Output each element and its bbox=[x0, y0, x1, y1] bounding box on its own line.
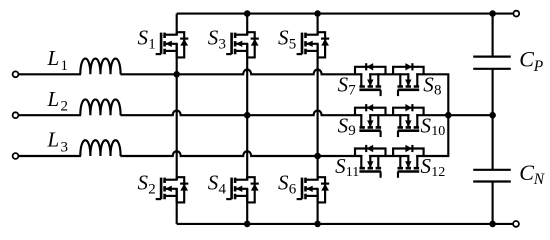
wire phase 2: S9-S10 common bar bbox=[369, 114, 409, 116]
wire phase 3: S11-S12 common bar bbox=[369, 155, 409, 157]
input terminal phase 1 bbox=[13, 71, 19, 77]
wire input 1 to inductor L1 bbox=[18, 73, 81, 75]
svg-text:C: C bbox=[519, 160, 534, 185]
svg-text:9: 9 bbox=[348, 123, 356, 139]
svg-text:C: C bbox=[519, 47, 534, 72]
svg-text:S: S bbox=[208, 171, 219, 195]
transistor S11 (horizontal NMOS, body diode pointing left) bbox=[355, 145, 386, 178]
svg-text:S: S bbox=[335, 154, 346, 178]
svg-text:S: S bbox=[338, 72, 349, 96]
svg-text:1: 1 bbox=[61, 58, 69, 74]
wire DC+ top rail bbox=[177, 13, 514, 15]
transistor S1 (NMOS with body diode) bbox=[156, 32, 189, 57]
input terminal phase 2 bbox=[13, 112, 19, 118]
wire phase 3: S12 to midpoint bus bbox=[416, 155, 449, 157]
wire leg: S6 source to bottom rail bbox=[317, 189, 319, 224]
wire phase 1: inductor L1 to leg of S1/S2, hops over legs 2 and 3, to S7 bbox=[120, 70, 362, 75]
svg-text:2: 2 bbox=[148, 182, 156, 198]
svg-text:P: P bbox=[533, 58, 544, 75]
node: leg joins DC+ rail bbox=[244, 10, 251, 17]
svg-text:S: S bbox=[423, 72, 434, 96]
transistor S12 (horizontal NMOS mirrored, body diode pointing right) bbox=[393, 145, 424, 178]
svg-text:S: S bbox=[421, 154, 432, 178]
transistor S8 (horizontal NMOS mirrored, body diode pointing right) bbox=[393, 63, 424, 96]
wire phase 2: inductor L2 to S9, hops over legs 1 and 3 bbox=[120, 110, 362, 115]
transistor S10 (horizontal NMOS mirrored, body diode pointing right) bbox=[393, 104, 424, 137]
wire phase 1: S7-S8 common bar bbox=[369, 73, 409, 75]
wire input 3 to inductor L3 bbox=[18, 155, 81, 157]
node: leg joins DC+ rail bbox=[314, 10, 321, 17]
svg-text:S: S bbox=[338, 113, 349, 137]
svg-text:S: S bbox=[421, 113, 432, 137]
svg-text:12: 12 bbox=[431, 165, 445, 180]
transistor S9 (horizontal NMOS, body diode pointing left) bbox=[355, 104, 386, 137]
svg-text:4: 4 bbox=[219, 182, 227, 198]
node: midpoint link joins DC-link bus bbox=[489, 112, 496, 119]
svg-text:L: L bbox=[47, 46, 60, 70]
output terminal DC- bbox=[513, 221, 519, 227]
svg-text:5: 5 bbox=[289, 37, 297, 53]
svg-text:7: 7 bbox=[348, 82, 356, 98]
svg-text:11: 11 bbox=[346, 165, 359, 180]
svg-text:10: 10 bbox=[431, 124, 445, 139]
svg-text:2: 2 bbox=[61, 99, 69, 115]
node: phase connects to leg at x=176.7 bbox=[173, 71, 180, 78]
svg-text:S: S bbox=[138, 171, 149, 195]
transistor S4 (NMOS with body diode) bbox=[226, 177, 259, 202]
input terminal phase 3 bbox=[13, 153, 19, 159]
wire leg 1/2: rail to S1 drain bbox=[176, 14, 178, 35]
wire DC-link bus lower segment bbox=[492, 182, 494, 224]
node: phase connects to leg at x=317.6 bbox=[314, 153, 321, 160]
output terminal DC+ bbox=[513, 11, 519, 17]
wire leg: S3 source through phase junction down to S4 drain bbox=[246, 44, 248, 180]
wire midpoint bus (bidirectional switches common) bbox=[447, 74, 449, 156]
wire leg: S1 source through phase junction down to S2 drain bbox=[176, 44, 178, 180]
wire phase 2: S10 to midpoint bus bbox=[416, 114, 448, 116]
wire DC-link bus upper segment bbox=[492, 14, 494, 57]
svg-text:L: L bbox=[47, 87, 60, 111]
svg-text:6: 6 bbox=[289, 182, 297, 198]
node: DC-link bus joins DC+ rail bbox=[489, 10, 496, 17]
svg-text:S: S bbox=[138, 26, 149, 50]
svg-text:L: L bbox=[47, 128, 60, 152]
wire leg: S2 source to bottom rail bbox=[176, 189, 178, 224]
wire leg 3/4: rail to S3 drain bbox=[246, 14, 248, 35]
inductor L2 bbox=[80, 99, 120, 115]
svg-text:1: 1 bbox=[148, 37, 156, 53]
svg-text:S: S bbox=[208, 26, 219, 50]
node: phase connects to leg at x=247.2 bbox=[244, 112, 251, 119]
capacitor CN bbox=[473, 169, 511, 171]
wire midpoint link to DC-link center bbox=[448, 114, 492, 116]
transistor S5 (NMOS with body diode) bbox=[297, 32, 330, 57]
transistor S3 (NMOS with body diode) bbox=[226, 32, 259, 57]
wire leg: S5 source through phase junction down to S6 drain bbox=[317, 44, 319, 180]
svg-text:3: 3 bbox=[219, 37, 227, 53]
node: DC-link bus joins DC- rail bbox=[489, 221, 496, 228]
svg-text:N: N bbox=[533, 171, 546, 188]
transistor S7 (horizontal NMOS, body diode pointing left) bbox=[355, 63, 386, 96]
wire DC-link bus middle segment bbox=[492, 69, 494, 170]
node: leg joins DC- rail bbox=[314, 221, 321, 228]
capacitor CP bbox=[473, 55, 511, 57]
inductor L1 bbox=[80, 59, 120, 75]
wire DC- bottom rail bbox=[177, 223, 513, 225]
transistor S6 (NMOS with body diode) bbox=[297, 177, 330, 202]
wire phase 3: inductor L3 to S11, hops over legs 1 and 2 bbox=[120, 151, 362, 156]
inductor L3 bbox=[80, 140, 120, 156]
svg-text:3: 3 bbox=[61, 140, 69, 156]
wire input 2 to inductor L2 bbox=[18, 114, 81, 116]
svg-text:8: 8 bbox=[434, 82, 442, 98]
wire leg: S4 source to bottom rail bbox=[246, 189, 248, 224]
svg-text:S: S bbox=[278, 26, 289, 50]
wire leg 5/6: rail to S5 drain bbox=[317, 14, 319, 35]
wire phase 1: S8 to midpoint bus bbox=[416, 73, 449, 75]
node: leg joins DC- rail bbox=[244, 221, 251, 228]
transistor S2 (NMOS with body diode) bbox=[156, 177, 189, 202]
svg-text:S: S bbox=[278, 171, 289, 195]
node: phase2 row joins midpoint bus bbox=[445, 112, 452, 119]
